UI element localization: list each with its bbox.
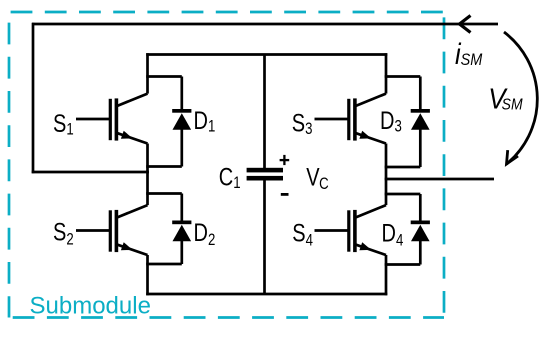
transistor S3 xyxy=(315,53,387,180)
svg-text:D4: D4 xyxy=(382,219,404,250)
submodule dashed border xyxy=(9,12,444,318)
wire output right (node between S3/S4) xyxy=(386,178,494,181)
svg-text:VSM: VSM xyxy=(488,82,523,115)
wire top (input) xyxy=(32,23,498,26)
svg-text:C1: C1 xyxy=(219,164,241,193)
transistor S1 xyxy=(76,53,148,173)
diode D4 xyxy=(385,194,430,265)
svg-text:iSM: iSM xyxy=(455,37,483,70)
svg-text:VC: VC xyxy=(306,163,329,193)
diode D1 xyxy=(146,77,191,167)
svg-text:Submodule: Submodule xyxy=(30,292,151,319)
diode D3 xyxy=(385,77,430,168)
svg-text:D2: D2 xyxy=(194,219,216,250)
svg-text:S4: S4 xyxy=(292,219,313,250)
V_SM arc arrow xyxy=(504,32,537,164)
wire bottom rail (DC-) xyxy=(146,293,387,296)
wire top rail (DC+) xyxy=(146,53,387,56)
transistor S2 xyxy=(76,171,148,296)
diode D2 xyxy=(146,194,191,265)
capacitor minus sign xyxy=(281,193,289,196)
svg-text:S1: S1 xyxy=(53,110,74,139)
transistor S4 xyxy=(315,178,387,296)
capacitor C1 xyxy=(247,55,283,295)
svg-text:S2: S2 xyxy=(53,218,74,249)
wire mid-left rail (node between S1/S2) xyxy=(32,171,149,174)
wire left vertical xyxy=(32,23,35,174)
arrowhead i_SM xyxy=(460,16,471,33)
svg-text:D3: D3 xyxy=(380,107,402,136)
capacitor plus sign xyxy=(280,155,290,165)
svg-text:D1: D1 xyxy=(194,107,216,136)
svg-text:S3: S3 xyxy=(292,109,313,138)
